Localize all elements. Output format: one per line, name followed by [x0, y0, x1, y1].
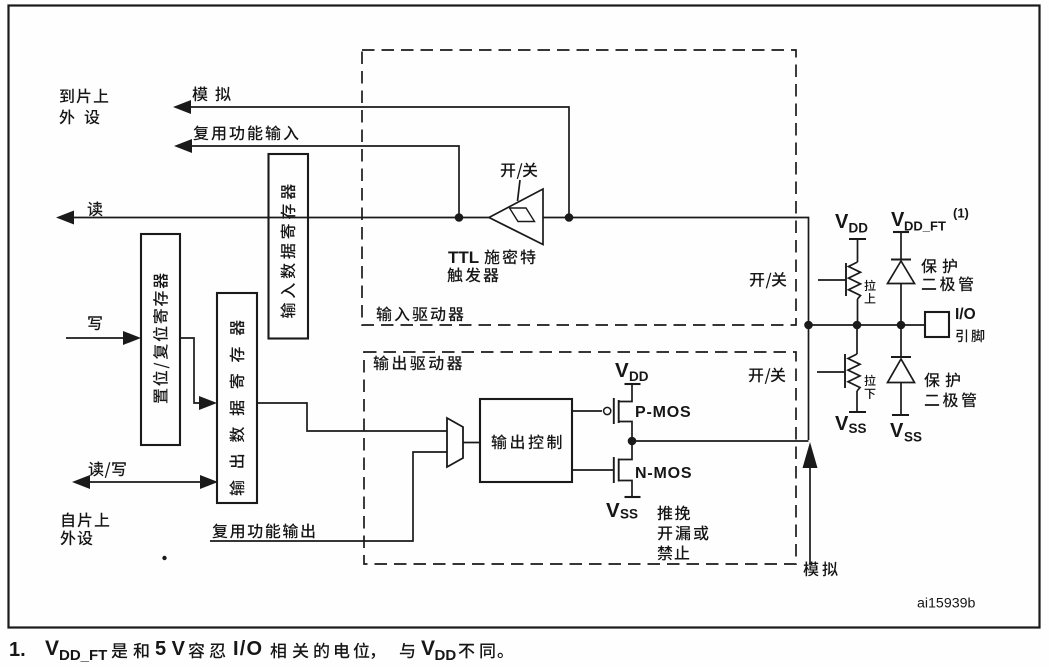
svg-text:DD_FT: DD_FT: [59, 647, 107, 664]
svg-text:DD: DD: [435, 647, 457, 664]
transistor N-MOS: gate bar: [613, 457, 615, 483]
label 推挽 push-pull: [657, 506, 690, 521]
wire: output data register to mux: [257, 403, 447, 431]
svg-text:N-MOS: N-MOS: [635, 465, 692, 482]
pull-down switch gate lead: [817, 371, 845, 373]
footnote 容忍: [189, 643, 226, 659]
dashed box: input driver: [362, 50, 796, 325]
svg-text:V: V: [835, 211, 849, 233]
footnote 是和: [112, 643, 149, 659]
hysteresis symbol: [510, 208, 535, 222]
label 开/关 switch (pull-down): [749, 368, 786, 384]
svg-text:DD_FT: DD_FT: [904, 219, 946, 234]
diode D1: stem to pad line: [900, 284, 902, 326]
svg-text:V: V: [891, 209, 905, 231]
transistor P-MOS: drain lead: [619, 422, 632, 442]
label 输入数据寄存器 (vertical): [280, 184, 295, 318]
arrowhead: write: [123, 331, 141, 345]
arrowhead: analog top left: [173, 100, 191, 114]
transistor P-MOS: VDD rail bar: [625, 383, 641, 385]
wire: bit set/reset reg to output data reg: [180, 338, 201, 403]
arrowhead: alternate function input: [174, 139, 192, 153]
label 写 write: [88, 316, 102, 330]
label 到片上 (to on-chip peripheral line1): [60, 89, 108, 104]
svg-text:V: V: [421, 637, 435, 660]
label 开漏或 open-drain or: [658, 526, 709, 541]
label 外设 (from line2): [61, 531, 93, 546]
node: pad line left: [804, 321, 813, 330]
svg-text:5 V: 5 V: [155, 638, 186, 660]
label 禁止 disabled: [658, 546, 690, 561]
label 外设 (line2): [60, 110, 100, 125]
arrowhead: read/write right: [200, 475, 218, 489]
svg-text:SS: SS: [904, 430, 922, 445]
svg-text:ai15939b: ai15939b: [917, 596, 975, 612]
mux trapezoid: [447, 418, 463, 467]
wire: output control to P-MOS gate: [572, 410, 602, 412]
arrowhead: analog up arrow: [803, 442, 818, 468]
label 输出控制 output control: [492, 434, 562, 449]
label 自片上 (from on-chip peripheral line1): [63, 513, 110, 528]
diode D2: cathode bar: [891, 356, 911, 358]
label 开/关 switch (pull-up): [750, 272, 787, 288]
label 置位/复位寄存器 (vertical): [153, 273, 170, 403]
wire: read/write double arrow: [89, 481, 201, 483]
wire: schmitt output to pad vertical: [543, 218, 809, 441]
box: output control U1: [480, 399, 572, 482]
pull-up switch gate lead: [818, 279, 846, 281]
wire: output control to N-MOS gate: [572, 469, 613, 471]
wire: P-MOS/N-MOS drain to pad: [632, 440, 809, 442]
svg-text:SS: SS: [849, 421, 867, 436]
pull-down: stem to VSS: [856, 391, 858, 412]
label 输出数据寄存器 (vertical): [229, 320, 244, 495]
transistor P-MOS: gate bar: [613, 398, 615, 424]
wire: analog input (top) to left arrow: [190, 107, 569, 218]
resistor: pull-up zigzag: [849, 262, 861, 299]
label 读 read: [88, 202, 103, 217]
pull-down: VSS rail bar: [849, 411, 866, 413]
wire: mux to output control: [463, 442, 480, 444]
svg-text:V: V: [835, 413, 849, 435]
label 输出驱动器 output driver: [374, 355, 463, 370]
label 施密特 (schmitt): [485, 249, 536, 264]
footnote 与: [400, 643, 414, 658]
label 输入驱动器 input driver: [377, 306, 464, 321]
pull-up: VDD rail bar: [849, 238, 866, 240]
wire: I/O pad line: [809, 324, 926, 326]
node: analog junction: [565, 213, 574, 222]
svg-text:SS: SS: [620, 507, 638, 522]
pull-up: stem from VDD: [857, 239, 859, 262]
transistor N-MOS: drain lead: [619, 441, 632, 460]
wire: read line: [73, 217, 489, 219]
label 拉上 pull-up: [865, 280, 876, 304]
dashed box: output driver: [364, 352, 796, 564]
svg-text:V: V: [45, 637, 59, 660]
node: drain junction: [628, 437, 637, 446]
label 二极管 diode (lower): [925, 392, 976, 407]
diode D2: triangle: [888, 359, 915, 383]
register box: bit set/reset register: [141, 234, 180, 445]
svg-text:I/O: I/O: [955, 306, 976, 323]
svg-text:V: V: [606, 499, 620, 522]
diode D2 (to VSS): stem from pad line: [900, 325, 902, 357]
node: diode tap: [897, 321, 906, 330]
svg-text:V: V: [615, 359, 629, 382]
transistor N-MOS: source lead to VSS: [619, 481, 632, 498]
footnote 相关的电位，: [270, 643, 375, 660]
svg-text:DD: DD: [629, 369, 649, 384]
label 二极管 diode (upper): [922, 276, 973, 291]
wire: analog (bottom) shaft: [809, 467, 811, 565]
wire: write arrow: [66, 337, 125, 339]
arrowhead: into output data register: [199, 396, 217, 410]
svg-text:DD: DD: [849, 221, 869, 236]
label 开/关 switch (schmitt): [501, 163, 538, 179]
transistor N-MOS: VSS rail bar: [625, 496, 641, 498]
pull-up switch gate bar: [845, 263, 847, 296]
diode D1 (to VDD_FT): rail bar: [893, 231, 909, 233]
switch lever on schmitt trigger: [518, 180, 521, 201]
TTL schmitt trigger triangle: [489, 189, 543, 245]
svg-text:V: V: [890, 420, 904, 442]
label 拉下 pull-down: [865, 375, 876, 399]
node: pull-up/down tap: [853, 321, 862, 330]
I/O pin box: [925, 312, 949, 337]
arrowhead: read: [56, 211, 74, 225]
diode D2: VSS rail bar: [892, 414, 909, 416]
diode D1: stem: [900, 232, 902, 259]
register box: input data register: [269, 154, 309, 339]
label 触发器 (trigger): [447, 267, 498, 282]
svg-text:P-MOS: P-MOS: [635, 404, 691, 421]
label 模拟 analog (top): [192, 87, 230, 102]
wire: alternate function output: [210, 452, 447, 541]
footnote 不同。: [459, 644, 503, 659]
diode D1: triangle: [888, 261, 915, 284]
arrowhead: read/write left: [72, 475, 90, 489]
pull-down: stem from pad line: [856, 325, 858, 354]
transistor P-MOS: gate bubble: [604, 407, 611, 414]
label 保护 protection (lower): [924, 373, 960, 388]
label 读/写 read-write: [89, 462, 126, 478]
label 引脚 pin: [956, 329, 984, 342]
svg-text:I/O: I/O: [233, 638, 263, 660]
label 模拟 analog (bottom): [803, 562, 837, 577]
pull-up: stem to pad line: [857, 299, 859, 325]
svg-text:1.: 1.: [9, 639, 26, 661]
transistor P-MOS: channel bar: [618, 400, 620, 423]
svg-text:(1): (1): [953, 206, 969, 221]
resistor: pull-down zigzag: [848, 354, 860, 391]
wire: alternate function input: [191, 146, 459, 218]
stray period mark: [162, 556, 166, 560]
transistor N-MOS: channel bar: [618, 459, 620, 482]
diode D2: stem to VSS: [900, 383, 902, 416]
label 保护 protection (upper): [921, 259, 957, 274]
svg-text:TTL: TTL: [448, 248, 479, 267]
register box: output data register: [217, 293, 257, 503]
transistor P-MOS: source lead to VDD: [619, 384, 632, 402]
label 复用功能输出 alternate function output: [213, 523, 315, 538]
pull-down switch gate bar: [844, 354, 846, 388]
node: AF-input junction: [455, 213, 464, 222]
diode D1: cathode bar: [891, 258, 911, 260]
label 复用功能输入 alternate function input: [194, 125, 299, 140]
